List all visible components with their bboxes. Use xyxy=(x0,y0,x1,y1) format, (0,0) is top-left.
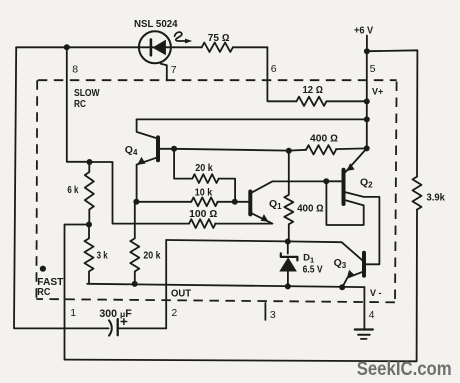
svg-text:NSL 5024: NSL 5024 xyxy=(134,19,178,30)
svg-text:SLOW: SLOW xyxy=(74,88,100,99)
svg-text:400 Ω: 400 Ω xyxy=(297,204,324,215)
svg-text:1: 1 xyxy=(70,307,76,319)
svg-text:6: 6 xyxy=(271,63,277,75)
svg-text:3 k: 3 k xyxy=(97,251,108,262)
svg-text:100 Ω: 100 Ω xyxy=(189,209,218,220)
svg-text:V+: V+ xyxy=(372,87,383,97)
svg-text:7: 7 xyxy=(171,64,177,76)
svg-text:2: 2 xyxy=(171,307,177,319)
svg-text:20 k: 20 k xyxy=(143,251,160,262)
svg-text:75 Ω: 75 Ω xyxy=(208,33,230,44)
svg-text:FAST: FAST xyxy=(37,277,63,288)
svg-text:V -: V - xyxy=(370,288,382,298)
svg-text:RC: RC xyxy=(37,287,50,298)
svg-text:12 Ω: 12 Ω xyxy=(303,85,324,96)
svg-text:6.5 V: 6.5 V xyxy=(303,264,323,275)
svg-text:+6 V: +6 V xyxy=(354,26,373,37)
svg-text:RC: RC xyxy=(74,99,86,110)
svg-text:4: 4 xyxy=(369,309,375,321)
svg-text:8: 8 xyxy=(72,64,78,76)
svg-text:300 μF: 300 μF xyxy=(99,308,132,320)
svg-text:3.9k: 3.9k xyxy=(427,192,446,203)
svg-text:6 k: 6 k xyxy=(67,185,78,196)
svg-text:400 Ω: 400 Ω xyxy=(310,134,338,145)
svg-text:SeekIC.com: SeekIC.com xyxy=(357,358,452,380)
svg-text:10 k: 10 k xyxy=(195,187,213,198)
svg-text:20 k: 20 k xyxy=(195,163,213,174)
svg-text:5: 5 xyxy=(370,63,376,75)
svg-text:OUT: OUT xyxy=(171,289,191,300)
svg-text:3: 3 xyxy=(270,309,276,321)
